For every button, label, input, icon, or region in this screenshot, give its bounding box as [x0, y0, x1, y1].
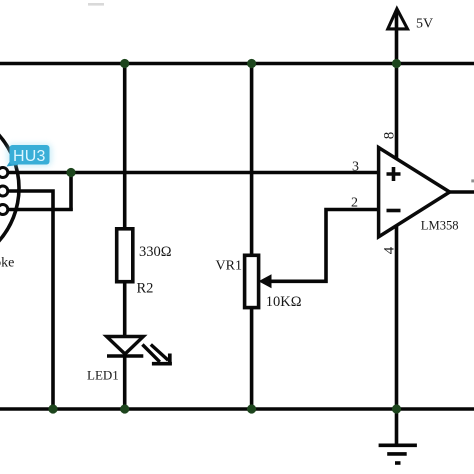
label HU3 glow [7, 144, 52, 167]
svg-text:5V: 5V [416, 17, 433, 32]
label HU3 tail [7, 152, 19, 167]
wire pin1-pin3 tie vertical [69, 173, 73, 212]
op-amp U1 triangle [379, 148, 450, 237]
junction dot sensor node [66, 168, 75, 177]
pin number 1 (cut off at edge) [471, 179, 474, 182]
sensor pin 2 [0, 186, 8, 196]
wire 5V shaft and op-amp pin 8 [395, 11, 399, 159]
sensor pin 3 [0, 205, 8, 215]
ground stem [395, 409, 399, 445]
junction dot gnd-VR1 [247, 404, 256, 413]
svg-text:HU3: HU3 [13, 148, 46, 165]
decorative faint artifact top [88, 3, 104, 6]
junction dot rail-VR1 [247, 59, 256, 68]
wire op-amp pin 4 to ground rail [395, 226, 399, 409]
svg-text:Smoke: Smoke [0, 256, 14, 271]
op-amp minus sign [387, 209, 401, 213]
svg-text:VR1: VR1 [216, 259, 242, 274]
wire sensor pin 3 horizontal [8, 208, 73, 212]
svg-text:LM358: LM358 [421, 219, 459, 233]
potentiometer VR1 body [245, 255, 259, 307]
wire R2 bottom to LED [123, 282, 127, 338]
wire GND bottom rail [0, 407, 474, 411]
label HU3 box [10, 145, 50, 165]
svg-text:2: 2 [351, 196, 358, 211]
svg-text:10KΩ: 10KΩ [266, 294, 302, 310]
wire R2 top [123, 64, 127, 230]
svg-text:3: 3 [352, 160, 359, 175]
junction dot gnd-LED [120, 404, 129, 413]
LED cathode bar [107, 354, 143, 358]
ground bar 1 [379, 443, 417, 447]
wire op-amp output [450, 190, 474, 194]
junction dot rail-5V [392, 59, 401, 68]
junction dot rail-R2 [120, 59, 129, 68]
LED light arrow 1 [142, 345, 159, 362]
ground bar 3 [395, 461, 401, 465]
LED arrowhead vertical bar [168, 354, 172, 364]
LED D1 triangle [107, 337, 144, 355]
svg-text:LED1: LED1 [87, 368, 119, 383]
wire VCC top rail [0, 62, 474, 66]
wire VR1 bottom [250, 308, 254, 409]
LED arrowhead horizontal bar [152, 362, 172, 366]
LED light arrow 2 [151, 345, 168, 361]
wire wiper to op-amp - input [269, 210, 379, 282]
svg-text:330Ω: 330Ω [139, 244, 172, 260]
resistor R2 body [117, 229, 133, 282]
junction dot gnd-pin2wire [48, 404, 57, 413]
op-amp plus sign [387, 167, 401, 181]
ground bar 2 [387, 452, 407, 456]
sensor pin 1 [0, 168, 8, 178]
svg-text:R2: R2 [137, 281, 154, 297]
wire sensor pin 2 to ground rail [8, 191, 53, 409]
sensor HU3 body circle [0, 108, 19, 268]
wire LED to ground rail [123, 355, 127, 410]
wire sensor pin1 to op-amp + input [8, 171, 379, 175]
junction dot gnd-pin4 [392, 404, 401, 413]
VR1 wiper arrowhead [259, 274, 272, 288]
wire VR1 top [250, 64, 254, 257]
power 5V arrow [388, 9, 408, 29]
